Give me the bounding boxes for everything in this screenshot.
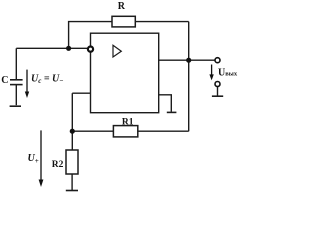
svg-text:R: R [118, 1, 126, 12]
svg-text:Uc = U−: Uc = U− [31, 73, 64, 85]
svg-text:U+: U+ [28, 153, 39, 165]
svg-text:R2: R2 [52, 160, 64, 170]
svg-text:Uвых: Uвых [218, 68, 238, 79]
svg-text:C: C [1, 75, 8, 86]
svg-text:R1: R1 [122, 117, 134, 127]
